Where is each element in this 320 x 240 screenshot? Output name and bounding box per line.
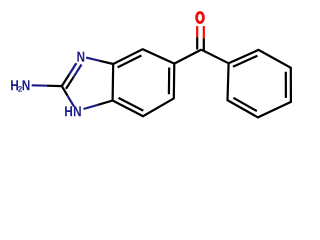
phenyl ring xyxy=(228,50,291,118)
bond H2N - C2 : navy half then black half xyxy=(32,84,47,87)
bond A3 to carbonyl C xyxy=(174,50,201,64)
bond carbonyl C to P1 xyxy=(201,50,228,64)
bond C2=N3 inner line xyxy=(66,77,74,89)
label N (N3) xyxy=(77,52,84,62)
double bond inner line P5-P6 xyxy=(233,98,257,111)
benzene ring of benzimidazole xyxy=(113,49,175,116)
bond N3 - A1 xyxy=(86,58,100,61)
double bond inner line A5-A6 xyxy=(119,98,144,111)
label O (carbonyl) xyxy=(196,12,205,24)
double bond inner line P1-P2 xyxy=(233,56,257,67)
double bond inner line A1-A2 xyxy=(118,56,142,68)
double bond inner line P3-P4 xyxy=(285,72,287,98)
bond C2 - N1 xyxy=(62,86,68,96)
C=O double bond, red top half, black bottom half xyxy=(196,26,198,37)
double bond inner line A3-A4 xyxy=(168,68,171,95)
bond N1 - A6 xyxy=(84,105,99,109)
label HN (N1) xyxy=(65,106,81,116)
bond C2=N3 main line xyxy=(62,75,69,87)
label H2N xyxy=(11,80,29,91)
